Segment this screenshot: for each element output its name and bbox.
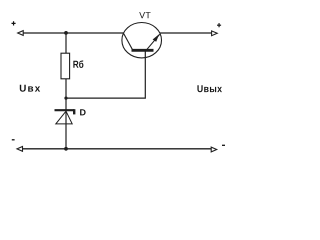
- transistor label VT: [139, 12, 150, 18]
- node dot: bottom rail / diode junction: [64, 147, 68, 151]
- top rail right segment wire: [160, 32, 213, 34]
- plus sign top right: [217, 23, 221, 27]
- node dot: base branch junction: [64, 97, 67, 100]
- top rail left segment wire: [20, 32, 124, 34]
- zener diode D cathode bar: [55, 109, 75, 111]
- zener cathode right tick: [73, 109, 75, 114]
- transistor collector diagonal: [124, 34, 133, 50]
- wire: rail to resistor: [65, 33, 67, 53]
- input - terminal arrow (bottom left): [17, 147, 23, 152]
- diode label D: [80, 109, 86, 115]
- transistor base bar: [132, 49, 154, 52]
- resistor R6 body: [61, 53, 70, 79]
- transistor emitter arrowhead: [153, 34, 160, 42]
- bottom rail wire: [20, 148, 213, 150]
- plus sign top left: [12, 21, 16, 25]
- minus sign bottom right: [222, 144, 225, 146]
- label Uvx (input voltage): [20, 85, 40, 92]
- output + terminal arrow (top right): [212, 31, 218, 36]
- wire: branch to transistor base: [66, 51, 145, 98]
- label Uvyx (output voltage): [197, 85, 222, 92]
- output - terminal arrow (bottom right): [211, 147, 217, 152]
- wire: resistor to bottom rail through zener: [65, 79, 67, 149]
- transistor VT body circle: [122, 23, 162, 58]
- node dot: top rail / resistor junction: [64, 31, 68, 35]
- transistor emitter diagonal with arrow: [147, 34, 160, 49]
- minus sign bottom left: [12, 139, 15, 141]
- zener diode triangle (anode): [56, 111, 72, 124]
- input + terminal arrow (top left): [18, 31, 24, 36]
- resistor label R6: [73, 60, 83, 68]
